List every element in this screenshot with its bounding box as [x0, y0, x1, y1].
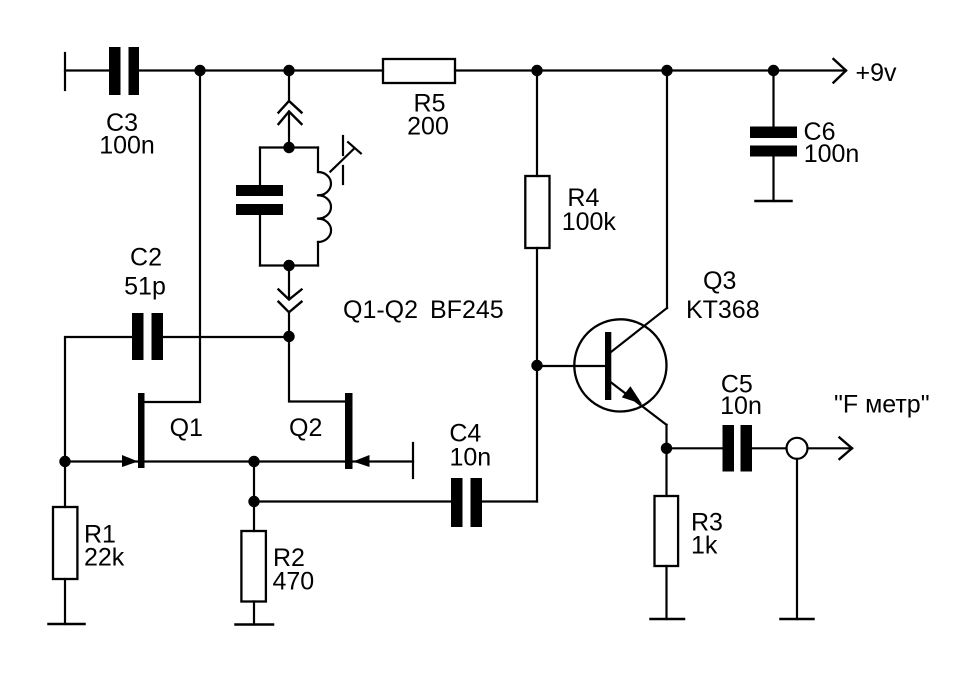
- svg-text:"F метр": "F метр": [834, 391, 930, 419]
- svg-text:Q1-Q2: Q1-Q2: [343, 296, 418, 324]
- svg-text:470: 470: [273, 568, 315, 596]
- svg-text:Q1: Q1: [170, 414, 203, 442]
- svg-text:1k: 1k: [691, 532, 718, 560]
- svg-text:100n: 100n: [804, 140, 860, 168]
- svg-text:KT368: KT368: [686, 296, 760, 324]
- svg-text:100n: 100n: [99, 132, 155, 160]
- svg-text:BF245: BF245: [430, 296, 504, 324]
- svg-text:Q3: Q3: [703, 267, 736, 295]
- svg-text:22k: 22k: [84, 544, 125, 572]
- svg-text:10n: 10n: [449, 444, 491, 472]
- svg-text:51p: 51p: [124, 273, 166, 301]
- svg-text:100k: 100k: [562, 208, 617, 236]
- svg-text:10n: 10n: [720, 392, 762, 420]
- svg-text:200: 200: [407, 113, 449, 141]
- svg-text:+9v: +9v: [856, 59, 898, 87]
- svg-text:Q2: Q2: [289, 414, 322, 442]
- svg-text:C2: C2: [130, 244, 162, 272]
